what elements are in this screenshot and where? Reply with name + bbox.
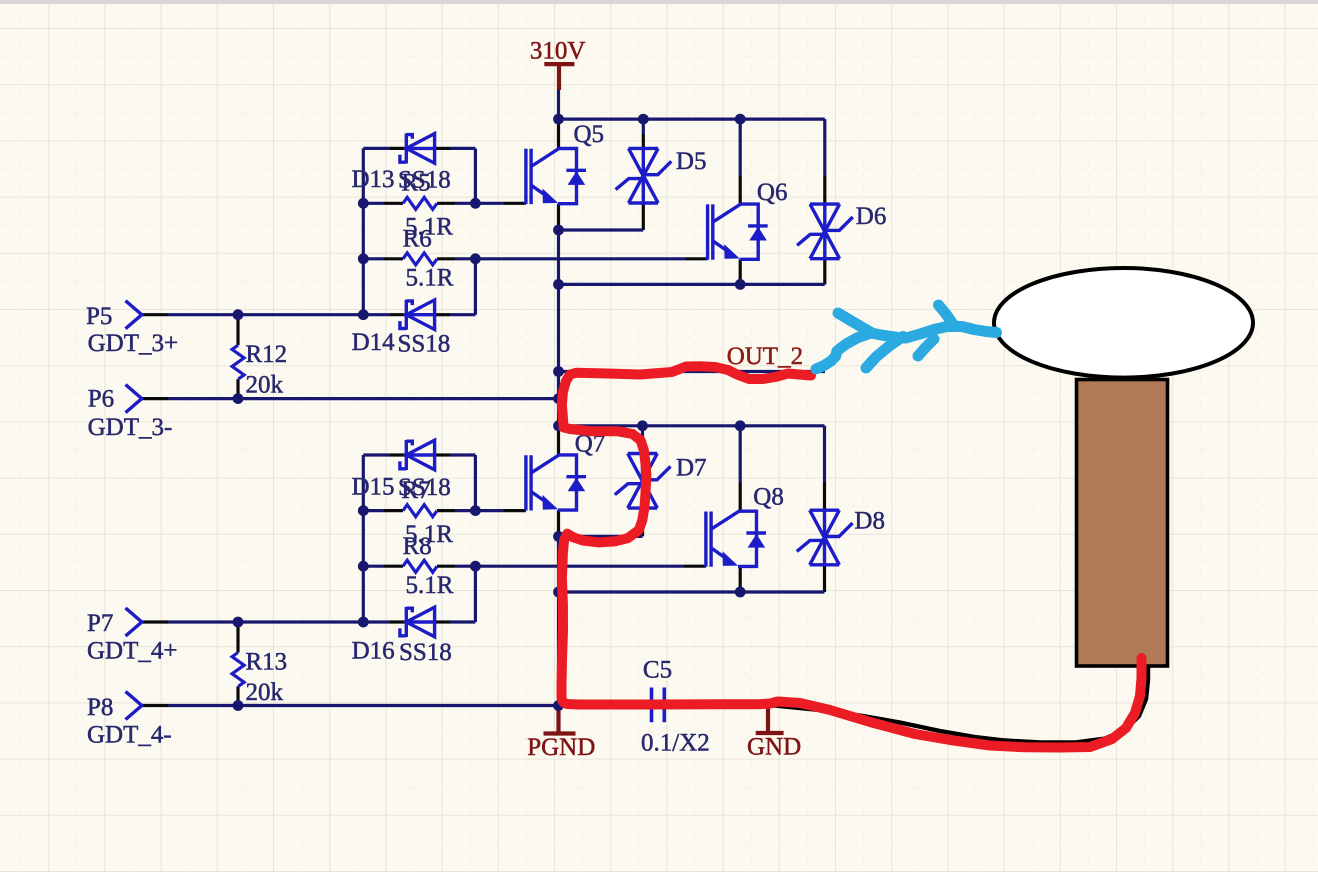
wire R7 row left: [363, 509, 384, 512]
wire R5 to Q5 gate: [475, 202, 504, 205]
svg-text:GDT_3+: GDT_3+: [88, 330, 178, 357]
cyan spark branch 2: [866, 337, 903, 369]
secondary coil: [1077, 380, 1168, 667]
pin D16 cathode: [435, 620, 450, 623]
cyan spark branch 1: [838, 313, 872, 333]
pin P5: [142, 313, 168, 316]
wire D14 row left: [363, 313, 390, 316]
svg-text:SS18: SS18: [399, 639, 452, 666]
node row2 top bus: [553, 420, 564, 431]
TVS diode D5: [616, 148, 672, 203]
node R5 left: [358, 198, 369, 209]
wire GDT_4- PGND net: [168, 704, 559, 707]
pin D5 top: [642, 134, 645, 148]
pin Q8 gate: [684, 565, 706, 568]
svg-text:SS18: SS18: [398, 331, 451, 358]
wire upper right rail R6-D14: [474, 259, 477, 315]
node R13 top: [233, 617, 244, 628]
port P6 arrow: [126, 385, 142, 413]
pin R12 top: [236, 315, 239, 346]
wire lower right rail D15-R7: [474, 455, 477, 511]
pin C5 left: [637, 704, 652, 707]
pin D15 cathode: [435, 453, 450, 456]
svg-text:5.1R: 5.1R: [406, 572, 454, 599]
cyan spark main stroke: [816, 327, 997, 370]
svg-text:GND: GND: [747, 734, 801, 761]
node R7 right: [470, 505, 481, 516]
wire Q8 collector feed: [739, 426, 742, 483]
wire D6 rail top: [823, 119, 826, 176]
node Q8 collector: [735, 420, 746, 431]
pin D13 anode: [390, 147, 406, 150]
svg-text:D14: D14: [352, 329, 396, 356]
pin Q6 gate: [686, 257, 708, 260]
node D5 top: [638, 114, 649, 125]
svg-text:D6: D6: [856, 203, 887, 230]
pin D5 bottom: [642, 203, 645, 230]
wire Q6 collector feed: [739, 119, 742, 176]
pin D8 bottom: [823, 565, 826, 592]
resistor R13: [232, 653, 244, 687]
node D16 left: [358, 617, 369, 628]
node R6 left: [358, 253, 369, 264]
node Q6 collector: [735, 114, 746, 125]
pin R5 right: [437, 202, 455, 205]
pin Q7 emitter: [557, 510, 560, 536]
red hand-drawn primary wire: [562, 366, 1142, 747]
node D7 top: [637, 420, 648, 431]
pin P6: [142, 397, 168, 400]
wire half-bridge midpoint column: [557, 230, 560, 426]
resistor R7: [403, 505, 437, 517]
capacitor C5: [652, 688, 665, 723]
pin P7: [142, 620, 168, 623]
pin R8 right: [437, 565, 455, 568]
port P5 arrow: [126, 301, 142, 329]
node D14 left: [358, 309, 369, 320]
transistor Q6: [708, 204, 768, 260]
svg-text:P8: P8: [87, 694, 113, 721]
node PGND: [553, 700, 564, 711]
node 310V bus left: [553, 114, 564, 125]
pin D6 top: [823, 176, 826, 204]
pin D13 cathode: [435, 147, 450, 150]
wire GDT_3+: [168, 313, 363, 316]
svg-text:D8: D8: [854, 508, 885, 535]
wire Q7 row top bus: [559, 424, 825, 427]
wire R7 row right: [455, 509, 475, 512]
svg-text:20k: 20k: [246, 679, 284, 706]
pin R12 bottom: [236, 379, 239, 399]
transistor Q8: [706, 511, 766, 567]
power port PGND: [544, 706, 576, 734]
svg-text:P6: P6: [88, 386, 114, 413]
pin D14 cathode: [435, 313, 450, 316]
wire Q7 row bottom bus: [559, 590, 825, 593]
wire D16 row left: [363, 620, 390, 623]
svg-text:R5: R5: [401, 170, 430, 197]
resistor R6: [403, 253, 437, 265]
svg-text:0.1/X2: 0.1/X2: [641, 730, 710, 757]
svg-text:310V: 310V: [530, 38, 586, 65]
wire D7 return: [559, 535, 643, 538]
wire D15 row right: [450, 453, 475, 456]
wire GDT_4+: [168, 620, 363, 623]
svg-text:20k: 20k: [246, 372, 284, 399]
wire R8 row left: [363, 565, 384, 568]
wire D7 top: [641, 426, 644, 440]
svg-text:Q8: Q8: [753, 484, 784, 511]
wire D14 row right: [450, 313, 475, 316]
node Q7 emitter: [553, 531, 564, 542]
power port 310V bar: [544, 64, 574, 90]
pin R7 left: [384, 509, 403, 512]
wire lower gate block left rail: [362, 455, 365, 622]
diode D14: [400, 300, 435, 330]
power port GND: [756, 706, 784, 734]
port P8 arrow: [126, 692, 142, 720]
node Q8 emitter: [735, 587, 746, 598]
svg-text:GDT_4-: GDT_4-: [87, 721, 172, 748]
pin P8: [142, 704, 168, 707]
node R13 bottom: [233, 700, 244, 711]
svg-text:Q6: Q6: [757, 179, 788, 206]
TVS diode D6: [797, 204, 853, 259]
transistor Q5: [526, 149, 586, 205]
port P7 arrow: [126, 608, 142, 636]
wire R8 row right: [455, 565, 475, 568]
node row2 bottom bus: [553, 587, 564, 598]
svg-text:C5: C5: [643, 657, 672, 684]
node R8 right: [470, 561, 481, 572]
pin Q6 emitter: [739, 259, 742, 284]
pin D7 top: [641, 440, 644, 454]
wire D13 row right: [450, 147, 475, 150]
svg-text:Q5: Q5: [574, 121, 605, 148]
resistor R5: [403, 197, 437, 209]
wire R5 row right: [455, 202, 475, 205]
wire D8 rail top: [823, 426, 826, 482]
node R7 left: [358, 505, 369, 516]
wire D5 top: [642, 119, 645, 134]
wire OUT_2 net: [559, 370, 826, 373]
pin R6 left: [384, 257, 403, 260]
pin R6 right: [437, 257, 455, 260]
node Q6 emitter: [735, 279, 746, 290]
svg-text:D15: D15: [352, 474, 395, 501]
pin D15 anode: [390, 453, 406, 456]
wire R5 row left: [363, 202, 384, 205]
wire PGND to C5: [559, 704, 638, 707]
pin Q5 gate: [504, 202, 526, 205]
wire R6 row right: [455, 257, 475, 260]
wire top bus 310V rail: [559, 117, 825, 120]
black ground cable: [770, 667, 1148, 743]
svg-text:R6: R6: [403, 226, 432, 253]
pin Q7 gate: [504, 509, 526, 512]
svg-text:R12: R12: [246, 341, 288, 368]
topload ellipse: [994, 268, 1253, 378]
node Q5 emitter: [553, 225, 564, 236]
svg-text:OUT_2: OUT_2: [727, 343, 803, 370]
svg-text:D16: D16: [352, 638, 395, 665]
diode D13: [400, 133, 435, 163]
pin D8 top: [823, 482, 826, 510]
svg-text:P5: P5: [86, 303, 112, 330]
node R12 bottom: [233, 393, 244, 404]
wire upper gate block left rail: [362, 148, 365, 314]
svg-text:R13: R13: [246, 649, 288, 676]
wire D13 row left: [363, 147, 390, 150]
cyan spark branch 3: [939, 305, 954, 324]
node R12 top: [233, 309, 244, 320]
wire 310V to top bus: [557, 90, 560, 119]
pin C5 right: [664, 704, 679, 707]
wire Q7 emitter column: [557, 536, 560, 592]
pin R13 bottom: [236, 686, 239, 705]
node row1 bottom bus: [553, 279, 564, 290]
node GDT_3- tap: [553, 393, 564, 404]
wire D16 row right: [450, 620, 475, 623]
wire lower right rail R8-D16: [474, 566, 477, 622]
pin Q6 collector: [739, 176, 742, 204]
wire R6 to Q6 gate: [475, 257, 686, 260]
node R5 right: [470, 198, 481, 209]
wire D15 row left: [363, 453, 390, 456]
resistor R12: [232, 345, 244, 379]
svg-text:R7: R7: [401, 477, 430, 504]
svg-text:GDT_3-: GDT_3-: [88, 414, 173, 441]
diode D16: [400, 607, 435, 637]
svg-text:GDT_4+: GDT_4+: [87, 638, 177, 665]
svg-text:PGND: PGND: [527, 734, 595, 761]
wire GDT_3- to midpoint: [168, 397, 559, 400]
resistor R8: [403, 560, 437, 572]
wire R8 to Q8 gate: [475, 565, 684, 568]
pin Q8 emitter: [739, 566, 742, 592]
svg-text:5.1R: 5.1R: [406, 265, 454, 292]
pin Q5 emitter: [557, 204, 560, 230]
pin Q5 collector: [557, 119, 560, 148]
TVS diode D7: [615, 454, 671, 509]
transistor Q7: [526, 455, 586, 511]
wire R7 to Q7 gate: [475, 509, 504, 512]
pin D16 anode: [390, 620, 406, 623]
pin Q8 collector: [739, 483, 742, 511]
node R8 left: [358, 561, 369, 572]
svg-text:D13: D13: [352, 166, 395, 193]
svg-text:P7: P7: [87, 610, 113, 637]
pin R13 top: [236, 622, 239, 653]
TVS diode D8: [797, 510, 853, 565]
wire R6 row left: [363, 257, 384, 260]
pin R5 left: [384, 202, 403, 205]
pin D14 anode: [390, 313, 406, 316]
svg-text:R8: R8: [403, 533, 432, 560]
diode D15: [400, 440, 435, 470]
pin R8 left: [384, 565, 403, 568]
pin D6 bottom: [823, 259, 826, 285]
cyan spark branch 4: [918, 339, 934, 356]
wire Q5 row bottom bus: [559, 283, 825, 286]
wire upper right rail D13-R5: [474, 148, 477, 203]
svg-text:D5: D5: [676, 148, 707, 175]
pin R7 right: [437, 509, 455, 512]
node OUT_2: [553, 366, 564, 377]
svg-text:D7: D7: [676, 455, 707, 482]
pin D7 bottom: [641, 508, 644, 536]
wire D5 return: [559, 228, 644, 231]
wire to PGND: [557, 592, 560, 706]
pin Q7 collector: [557, 426, 560, 455]
node R6 right: [470, 253, 481, 264]
wire C5 to GND: [679, 704, 768, 707]
